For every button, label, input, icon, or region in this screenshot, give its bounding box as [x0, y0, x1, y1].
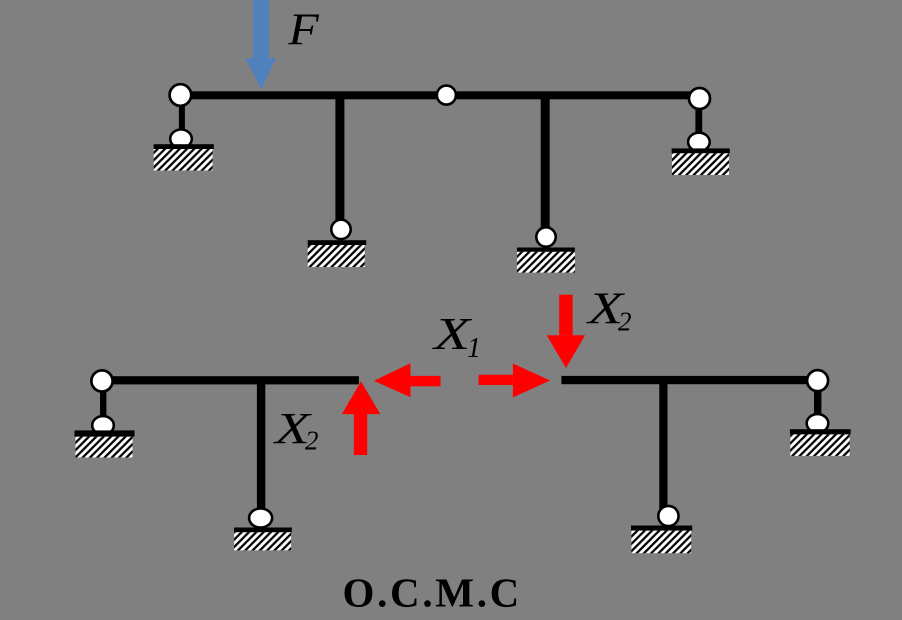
svg-text:1: 1	[467, 333, 481, 364]
svg-text:2: 2	[618, 306, 632, 336]
svg-text:O.C.M.C: O.C.M.C	[343, 570, 522, 616]
svg-text:2: 2	[305, 426, 319, 456]
svg-text:F: F	[287, 5, 319, 54]
